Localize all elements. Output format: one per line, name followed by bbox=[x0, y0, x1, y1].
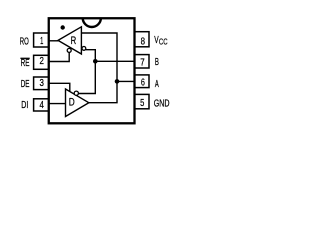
wire net B branch to pin 7 bbox=[95, 60, 134, 62]
wire net A branch to pin 6 bbox=[117, 80, 135, 82]
pin 2 box bbox=[34, 55, 49, 69]
svg-text:5: 5 bbox=[140, 98, 144, 109]
wire net A: receiver + input, pin 6, driver output apex bbox=[81, 33, 117, 103]
driver inverting output bubble (to B) bbox=[74, 91, 78, 95]
pin 5 box bbox=[135, 94, 149, 108]
svg-text:DE: DE bbox=[21, 79, 30, 90]
svg-text:7: 7 bbox=[140, 57, 145, 68]
wire RE: pin2 to receiver enable bubble bbox=[49, 52, 69, 61]
svg-text:DI: DI bbox=[21, 100, 28, 111]
svg-text:4: 4 bbox=[40, 100, 45, 111]
wire net B: receiver - input bubble to driver inverting bubble bbox=[78, 50, 95, 94]
svg-text:R: R bbox=[71, 35, 77, 47]
receiver inverting input bubble (B input) bbox=[82, 47, 86, 51]
receiver enable bubble (from RE) bbox=[67, 48, 71, 52]
svg-text:3: 3 bbox=[40, 78, 45, 89]
svg-text:GND: GND bbox=[154, 99, 170, 110]
svg-text:B: B bbox=[155, 57, 159, 68]
IC package body U1 bbox=[49, 18, 135, 123]
junction node A bbox=[115, 79, 120, 84]
pin-1 indicator dot bbox=[61, 25, 65, 29]
svg-text:D: D bbox=[69, 97, 75, 109]
pin 1 box bbox=[34, 33, 49, 47]
junction node B bbox=[93, 59, 98, 64]
svg-text:RE: RE bbox=[21, 58, 30, 69]
svg-text:2: 2 bbox=[40, 56, 45, 67]
overline of RE bbox=[20, 57, 29, 59]
svg-text:1: 1 bbox=[40, 36, 43, 47]
svg-text:6: 6 bbox=[141, 77, 145, 88]
pin-1 orientation notch bbox=[83, 18, 101, 27]
wire DE: pin3 to driver enable bbox=[49, 83, 70, 92]
pin 6 box bbox=[135, 75, 149, 88]
svg-text:RO: RO bbox=[20, 36, 29, 47]
svg-text:CC: CC bbox=[159, 38, 168, 47]
pin 3 box bbox=[34, 77, 49, 90]
pin 4 box bbox=[34, 99, 49, 111]
pin 8 box bbox=[135, 32, 149, 47]
svg-text:8: 8 bbox=[141, 37, 146, 48]
wire DI: pin4 to driver input bbox=[49, 103, 66, 105]
driver D triangle bbox=[66, 89, 89, 117]
pin 7 box bbox=[135, 55, 149, 68]
receiver R triangle bbox=[58, 27, 81, 54]
svg-text:A: A bbox=[155, 79, 159, 90]
wire RO: pin1 to receiver output apex bbox=[49, 40, 59, 42]
